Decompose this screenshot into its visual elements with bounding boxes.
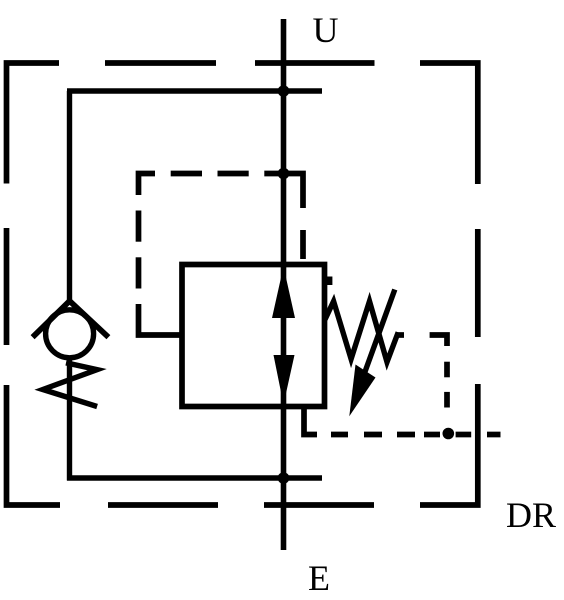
wire upper horizontal from check valve branch to U line (67, 88, 322, 93)
pilot line dashed box: bottom-left corner piece into valve body (139, 304, 181, 335)
adjustment arrow shaft across spring (362, 290, 395, 381)
valve V1 flow arrow up (272, 267, 295, 319)
pilot line dashed box: left edge dash 2 (136, 211, 142, 242)
drain pilot line: solid drop from valve bottom with first dash corner (304, 407, 317, 435)
check valve CV1 spring (43, 363, 97, 407)
pilot spring sense line: solid stub from spring end (397, 332, 405, 338)
adjustment arrow head (349, 365, 375, 417)
outer enclosure dashed box: bottom-left corner piece (7, 385, 61, 505)
valve body V1 envelope (182, 265, 325, 407)
outer enclosure dashed box: top edge dash 2 (105, 60, 216, 66)
wire left branch vertical upper segment (67, 91, 72, 302)
outer enclosure dashed box: top edge dash 3 (255, 60, 375, 66)
node junction at U line and upper wire (278, 85, 290, 97)
node junction on drain pilot line (443, 428, 455, 440)
pilot line dashed box: top edge dash 3 (218, 171, 249, 177)
check valve CV1 ball (46, 310, 94, 358)
svg-text:E: E (308, 558, 330, 598)
outer enclosure dashed box: top-right corner piece (420, 63, 478, 184)
wire left branch vertical lower segment (67, 360, 72, 481)
wire lower horizontal from check valve branch to E line (67, 475, 322, 480)
node junction at E line and lower wire (278, 472, 290, 484)
svg-text:DR: DR (506, 495, 556, 535)
drain pilot line: dash 2 (331, 432, 348, 438)
pilot spring sense line: vertical dash 2 (444, 362, 450, 378)
pilot spring sense line: vertical dash 3 (444, 392, 450, 408)
drain pilot line: dash 5 (424, 432, 440, 438)
spring S1 zigzag (325, 301, 398, 362)
drain pilot line: dash 4 (397, 432, 415, 438)
pilot line dashed box: top edge dash 4 (264, 171, 283, 177)
svg-text:U: U (313, 10, 339, 50)
outer enclosure dashed box: bottom-right corner piece (420, 384, 478, 505)
drain pilot line: dash 7 outside enclosure (487, 432, 501, 438)
outer enclosure dashed box: top-left corner piece (7, 63, 60, 184)
pilot line dashed box: top-left corner piece (139, 174, 156, 196)
outer enclosure dashed box: bottom edge dash 3 (108, 502, 218, 508)
check valve CV1 seat (33, 301, 109, 337)
spring S1 stub on valve body (326, 277, 332, 286)
drain pilot line: dash 3 (364, 432, 382, 438)
pilot line right branch dash 2 (300, 230, 306, 259)
pilot line dashed box: top edge dash 2 (171, 171, 202, 177)
wire main U-E vertical line (281, 19, 287, 550)
outer enclosure dashed box: right edge dash 2 (475, 229, 481, 337)
pilot line dashed box: left edge dash 3 (136, 257, 142, 288)
outer enclosure dashed box: left edge dash 2 (4, 228, 10, 345)
valve V1 flow arrow down (274, 355, 295, 405)
drain pilot line: dash 6 right of node (456, 432, 472, 438)
pilot line right branch corner piece at node (284, 174, 304, 209)
pilot spring sense line: corner piece (430, 335, 447, 346)
outer enclosure dashed box: bottom edge dash 2 (264, 502, 374, 508)
node junction at U line and pilot box top (278, 168, 290, 180)
